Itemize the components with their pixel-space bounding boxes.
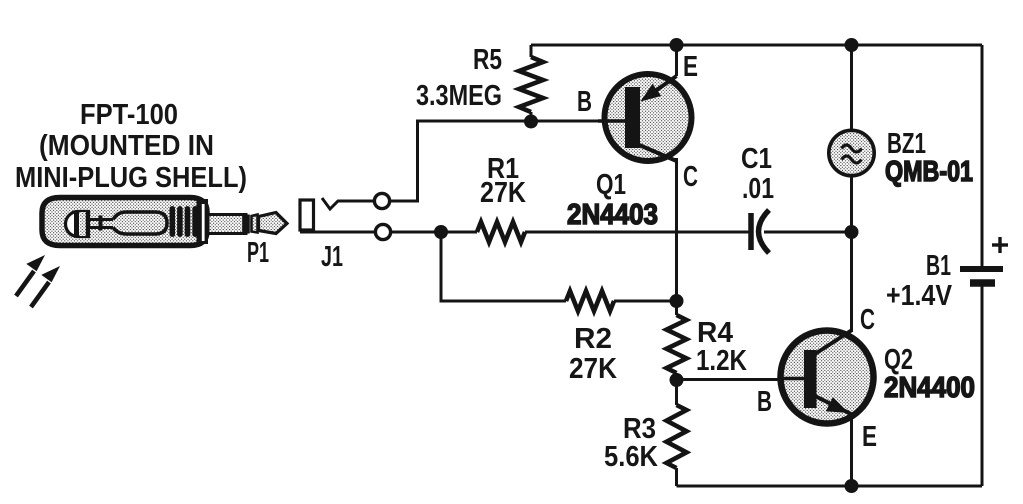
phototransistor plug P1 (FPT-100 in mini-plug shell) (42, 198, 287, 246)
wire node to Q2 base (677, 378, 809, 381)
node R4 / R3 / Q2 base (670, 373, 684, 387)
wire top rail (531, 44, 982, 47)
jack J1 sleeve wire (300, 231, 375, 234)
svg-text:2N4400: 2N4400 (884, 372, 975, 404)
jack J1 body (300, 200, 314, 230)
wire battery to bottom rail (981, 286, 984, 486)
node C1 / BZ1 / Q2 collector (845, 225, 859, 239)
wire Q1 emitter to top rail (675, 45, 678, 76)
svg-text:(MOUNTED IN: (MOUNTED IN (39, 130, 214, 162)
svg-text:R2: R2 (574, 323, 612, 355)
wire Q1 collector down to node R2/R4 (675, 158, 678, 301)
resistor R2 (566, 291, 614, 311)
svg-text:B: B (757, 386, 772, 418)
svg-text:1.2K: 1.2K (696, 345, 747, 377)
jack J1 sleeve contact circle (375, 224, 390, 239)
transistor Q1 2N4403 (598, 74, 692, 161)
svg-text:R5: R5 (473, 44, 502, 76)
svg-text:5.6K: 5.6K (604, 441, 658, 473)
svg-text:QMB-01: QMB-01 (885, 156, 973, 188)
node Q2 emitter / bottom rail (845, 479, 859, 493)
svg-text:27K: 27K (569, 353, 617, 385)
svg-text:FPT-100: FPT-100 (80, 99, 178, 131)
wire J1 tip contact to node B (390, 121, 532, 201)
svg-text:Q1: Q1 (596, 169, 626, 201)
wire R2 to node (614, 300, 677, 303)
light arrows (16, 255, 60, 307)
buzzer BZ1 (829, 130, 874, 175)
wire bottom rail (677, 485, 983, 488)
node top rail / BZ1 (845, 38, 859, 52)
transistor Q2 2N4400 (781, 330, 874, 424)
battery B1 (960, 237, 1008, 283)
wire Q2 collector to node (850, 232, 853, 332)
wire C1 to node (764, 231, 852, 234)
resistor R3 (667, 380, 687, 486)
svg-text:C: C (860, 304, 875, 336)
svg-text:E: E (683, 51, 698, 83)
resistor R5 (519, 45, 543, 121)
svg-text:P1: P1 (247, 237, 269, 269)
svg-text:.01: .01 (742, 173, 774, 205)
svg-text:2N4403: 2N4403 (567, 199, 658, 231)
svg-text:B1: B1 (926, 250, 951, 282)
svg-text:B: B (577, 86, 592, 118)
svg-text:3.3MEG: 3.3MEG (416, 80, 502, 112)
wire node sleeve down to R2 (441, 232, 566, 301)
svg-text:C: C (683, 161, 698, 193)
wire J1 sleeve to R1 (391, 231, 478, 234)
jack J1 tip contact (322, 198, 374, 209)
svg-text:27K: 27K (480, 177, 526, 209)
wire top rail to BZ1 (850, 45, 853, 130)
svg-text:E: E (862, 421, 877, 453)
wire BZ1 to node (850, 176, 853, 232)
node R2 / R4 / Q1 collector (670, 294, 684, 308)
svg-text:C1: C1 (741, 143, 772, 175)
node B junction (524, 115, 538, 129)
resistor R4 (667, 301, 687, 380)
wire Q2 emitter to bottom rail (850, 413, 853, 486)
jack J1 tip contact circle (374, 193, 389, 208)
resistor R1 (477, 222, 525, 242)
svg-text:MINI-PLUG SHELL): MINI-PLUG SHELL) (15, 162, 247, 194)
wire R1 to C1 (525, 231, 749, 234)
label FPT-100 (MOUNTED IN MINI-PLUG SHELL) (15, 99, 247, 194)
svg-text:+1.4V: +1.4V (886, 280, 953, 312)
node J1 sleeve / R2 branch (434, 225, 448, 239)
capacitor C1 (751, 210, 769, 253)
node top rail / Q1 emitter (670, 38, 684, 52)
svg-text:J1: J1 (321, 241, 343, 273)
wire top rail to battery (981, 45, 984, 266)
wire node B to Q1 base (531, 120, 632, 123)
